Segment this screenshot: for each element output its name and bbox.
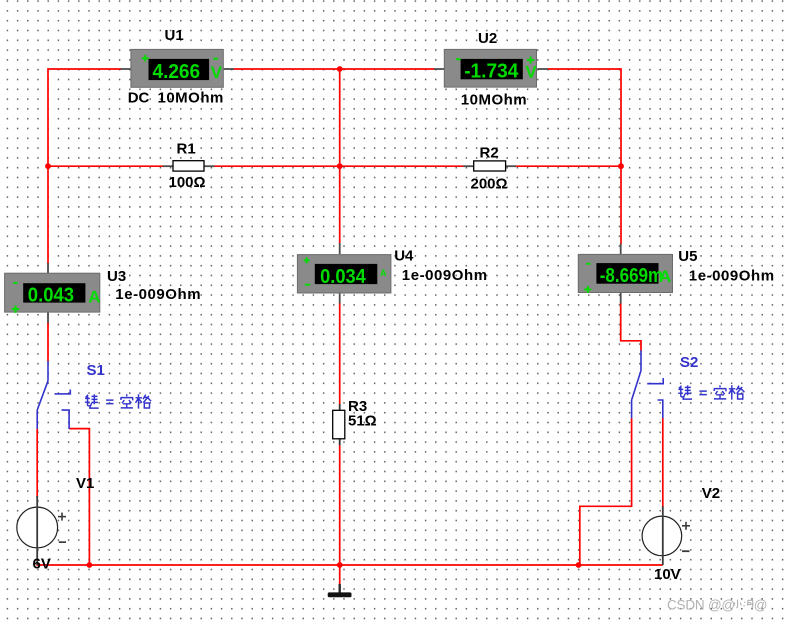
value label key space S1 (85, 394, 151, 408)
svg-text:V2: V2 (702, 485, 720, 502)
wire: right branch node C down to U5 top pin (620, 166, 622, 244)
ground (328, 584, 352, 597)
svg-text:A: A (659, 267, 671, 286)
svg-text:V1: V1 (76, 475, 94, 492)
wire: U1 right pin to mid-branch top node (234, 68, 340, 70)
ammeter U3 (5, 263, 101, 323)
wire: mid-branch top node to U2 left pin (340, 68, 435, 70)
svg-text:CSDN @@: CSDN @@ (667, 598, 735, 613)
wire: S1 pole bottom to V1 plus terminal (36, 429, 38, 497)
junction node A left branch at R1 row (45, 163, 51, 169)
svg-text:V: V (525, 63, 537, 82)
junction node B middle branch at R1 row (337, 163, 343, 169)
svg-text:1e-009Ohm: 1e-009Ohm (402, 267, 488, 284)
wire: mid branch from top node down through node B to U4 top pin (339, 69, 341, 244)
dc source V2 (642, 506, 690, 565)
svg-text:10V: 10V (654, 566, 681, 583)
svg-text:R2: R2 (480, 145, 499, 162)
ammeter U5 (578, 244, 672, 304)
junction node D ground on bottom bus (337, 562, 343, 568)
svg-text:R1: R1 (177, 141, 196, 158)
ammeter U4 (297, 243, 391, 304)
svg-text:S1: S1 (87, 362, 105, 379)
wire: R2 right pin to node C (516, 165, 621, 167)
junction node F on bottom bus (576, 562, 582, 568)
switch S2 (632, 350, 664, 418)
wire: U3 bottom pin down to S1 pole (47, 322, 49, 362)
svg-text:-1.734: -1.734 (464, 61, 519, 83)
svg-text:6V: 6V (33, 556, 51, 573)
svg-text:10MOhm: 10MOhm (158, 90, 224, 107)
svg-text:U5: U5 (678, 248, 697, 265)
junction node E on bottom bus (87, 562, 93, 568)
svg-text:0.034: 0.034 (320, 266, 366, 288)
svg-text:DC: DC (128, 90, 150, 107)
svg-text:U4: U4 (394, 248, 414, 265)
svg-text:100Ω: 100Ω (169, 174, 206, 191)
svg-text:-8.669m: -8.669m (600, 265, 664, 287)
wire: S2 throw-2 hook down to V2 plus terminal (662, 418, 664, 507)
svg-text:51Ω: 51Ω (348, 413, 377, 430)
svg-text:10MOhm: 10MOhm (461, 92, 527, 109)
svg-text:U1: U1 (165, 27, 184, 44)
voltmeter U1 (121, 49, 235, 87)
wire: U4 bottom pin down to R3 top pin (339, 303, 341, 405)
svg-text:4.266: 4.266 (153, 61, 201, 83)
value label key space S2 (678, 385, 744, 399)
junction node top of middle branch (337, 66, 343, 72)
wire: R3 bottom pin down to ground node D (339, 445, 341, 566)
svg-text:@: @ (754, 598, 768, 613)
resistor R1 (163, 161, 215, 171)
wire: bottom ground bus (36, 564, 663, 566)
svg-text:V: V (211, 63, 223, 82)
wire: top bus left segment from node A corner to U1 left pin (48, 69, 121, 166)
wire: R1 right pin to node B (214, 165, 339, 167)
wire: ground stub below bus (339, 565, 341, 585)
svg-text:A: A (88, 287, 100, 306)
svg-text:A: A (380, 268, 387, 278)
wire: left branch node A down to U3 top pin (47, 166, 49, 264)
resistor R3 (333, 404, 345, 445)
svg-text:U2: U2 (478, 30, 497, 47)
wire: node B to R2 left pin (340, 165, 464, 167)
switch S1 (37, 361, 70, 429)
svg-text:0.043: 0.043 (28, 284, 74, 306)
wire: U2 right pin to right corner then down to node C (547, 69, 621, 166)
svg-text:U3: U3 (107, 268, 126, 285)
wire: node A to R1 left pin (48, 165, 163, 167)
svg-text:1e-009Ohm: 1e-009Ohm (115, 286, 201, 303)
dc source V1 (17, 496, 66, 565)
wire: S2 pole bottom jog down to bottom bus node F (580, 418, 632, 565)
junction node C right branch at R2 row (618, 163, 624, 169)
voltmeter U2 (434, 49, 548, 87)
wire: S1 throw-2 hook to bottom bus node E (69, 429, 89, 565)
svg-text:1e-009Ohm: 1e-009Ohm (689, 267, 775, 284)
svg-text:200Ω: 200Ω (471, 176, 508, 193)
svg-text:S2: S2 (680, 354, 698, 371)
wire: U5 bottom pin to S2 pole jog (621, 303, 641, 352)
resistor R2 (463, 161, 516, 171)
